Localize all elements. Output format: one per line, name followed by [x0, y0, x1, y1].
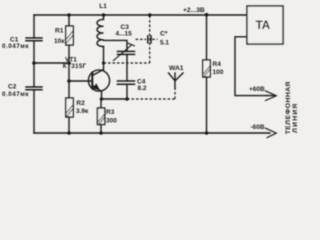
wire L1 tap to C3 [104, 40, 128, 51]
wire C1 tap to R1 branch [34, 62, 69, 64]
node R1 bottom tee [67, 61, 71, 65]
svg-text:+60В: +60В [249, 86, 265, 93]
node L1 top [102, 13, 106, 17]
wire R1 to R2 [68, 45, 70, 98]
node base tee [67, 79, 71, 83]
wire base lead [69, 80, 92, 82]
svg-text:R2: R2 [76, 100, 85, 107]
wire left rail bottom [33, 91, 35, 134]
svg-text:L1: L1 [99, 3, 107, 10]
wire dashed collector to C* net [104, 62, 150, 64]
dashed nets [104, 16, 176, 100]
wire bottom rail [34, 132, 270, 134]
wire R2 to rail [68, 117, 70, 133]
resistor R1 [66, 15, 73, 45]
svg-text:100: 100 [213, 69, 224, 76]
node R3 bottom [99, 131, 103, 135]
svg-text:ЛИНИЯ: ЛИНИЯ [292, 102, 299, 132]
resistor R4 [203, 15, 210, 133]
wire dashed vertical from top rail [149, 16, 151, 64]
wire TA box stub [235, 37, 267, 96]
svg-text:3.9к: 3.9к [76, 108, 89, 115]
svg-text:R3: R3 [106, 109, 115, 116]
svg-text:КТ315Г: КТ315Г [63, 63, 87, 70]
antenna WA1 [169, 73, 184, 88]
capacitor C2 [26, 87, 42, 90]
node C1 tap [32, 61, 36, 65]
svg-text:C2: C2 [8, 84, 17, 91]
resistor R2 [66, 98, 73, 117]
node C* top [148, 13, 152, 17]
node collector dash tee [102, 61, 105, 64]
svg-text:ТЕЛЕФОННАЯ: ТЕЛЕФОННАЯ [285, 81, 292, 134]
svg-text:0.047мк: 0.047мк [2, 91, 29, 98]
capacitor C3 trimmer [114, 43, 135, 60]
wire left rail upper [33, 15, 35, 38]
node R2 bottom [67, 131, 71, 135]
capacitor C4 [118, 81, 135, 84]
arrow -60V [266, 128, 277, 137]
svg-text:0.047мк: 0.047мк [2, 43, 29, 50]
inductor L1 [97, 15, 104, 47]
wire collector [103, 47, 105, 70]
node C4 bottom [125, 97, 129, 101]
box TA [247, 6, 283, 44]
svg-text:ТА: ТА [256, 18, 271, 32]
node emitter [100, 97, 104, 101]
svg-text:R1: R1 [55, 28, 64, 35]
svg-text:10к: 10к [54, 38, 65, 45]
svg-text:R4: R4 [213, 61, 222, 68]
svg-text:8.2: 8.2 [138, 85, 147, 92]
node R1 top [67, 13, 71, 17]
node R4 bottom [205, 131, 209, 135]
node R4 top [205, 13, 209, 17]
wire C4 to emitter node [126, 85, 128, 100]
wire top rail [34, 14, 247, 16]
transistor VT1 [88, 70, 109, 100]
wire left rail lower [33, 42, 35, 87]
wire emitter [102, 98, 128, 100]
capacitor C1 [26, 38, 42, 41]
capacitor C* [148, 35, 151, 43]
svg-text:5.1: 5.1 [160, 40, 169, 47]
svg-text:-60В: -60В [251, 124, 265, 131]
svg-text:WA1: WA1 [169, 65, 184, 72]
svg-text:300: 300 [106, 117, 117, 124]
resistor R3 [97, 99, 104, 133]
svg-text:+2...3В: +2...3В [183, 7, 205, 14]
svg-text:C*: C* [160, 31, 168, 38]
wire dashed antenna feed [127, 98, 175, 100]
svg-text:4...15: 4...15 [116, 31, 133, 38]
wire dashed C* branch [136, 38, 147, 40]
wire C3 to C4 [126, 55, 128, 81]
arrow +60V [266, 91, 277, 101]
